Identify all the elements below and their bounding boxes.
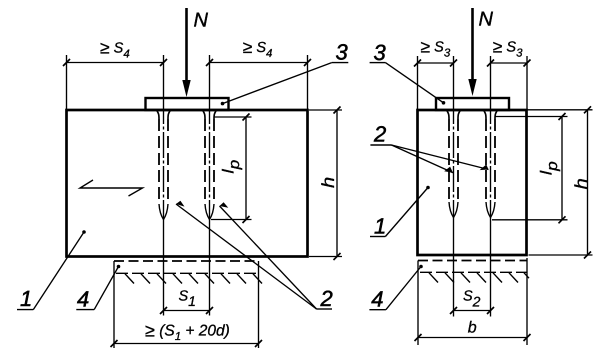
dimension >=S3 right: extension line [526, 56, 528, 109]
svg-text:1: 1 [20, 286, 32, 311]
svg-text:4: 4 [371, 287, 383, 312]
plate 3 (left view) [146, 98, 229, 110]
force arrow N (right view) [471, 8, 474, 81]
dimension >=(S1+20d): oblique ticks [111, 340, 118, 347]
dimension S2: oblique ticks [450, 307, 457, 314]
dimension lp (left view): oblique ticks [243, 114, 250, 121]
dimension lp (right view): dimension line [561, 117, 563, 220]
plate 3 (right view) [436, 98, 509, 110]
support 4 (left view): dashed top line [114, 260, 259, 262]
dimension >=S3 left: dimension line [418, 62, 454, 64]
svg-text:2: 2 [320, 286, 333, 311]
screw axis / extension line (right screw 1) [453, 56, 455, 98]
screw 1 tip (left view) [159, 204, 168, 220]
dimension S1: oblique ticks [160, 307, 167, 314]
svg-text:3: 3 [336, 39, 349, 64]
screw 2 head neck (right view) [484, 111, 497, 119]
screw 1 shank dashed (left view) [158, 119, 160, 204]
support 4 (left view): hatched surface [116, 273, 262, 283]
dimension >=S4 left: dimension line [67, 62, 164, 64]
screw 2 shank dashed (right view) [485, 119, 487, 202]
dimension lp (left view): dimension line [245, 117, 247, 220]
svg-text:3: 3 [374, 40, 387, 65]
member 1 outline (left view) [67, 110, 308, 257]
svg-text:1: 1 [374, 213, 386, 238]
screw axis / extension line (left screw 1) [163, 55, 165, 98]
svg-text:h: h [571, 178, 591, 189]
grain direction symbol (left view) [80, 180, 143, 196]
screw 1 head neck (right view) [447, 111, 460, 119]
dimension b: dimension line [418, 337, 527, 339]
dimension h (left view): dimension line [336, 110, 338, 257]
dimension >=(S1+20d): dimension line [114, 343, 259, 345]
dimension S1: dimension line [164, 310, 210, 312]
screw 2 shank dashed (left view) [204, 119, 206, 204]
dimension >=(S1+20d): right extension line [258, 261, 260, 348]
dimension >=S4 right: extension line [307, 55, 309, 109]
dimension lp (left view): extension lines [214, 116, 252, 118]
support 4 (right view): hatched surface [420, 272, 529, 282]
force arrow N (left view) [185, 8, 188, 82]
screw 1 head neck (left view) [157, 111, 170, 119]
dimension h (right view): extension lines [510, 109, 593, 111]
member 1 outline (right view) [418, 110, 527, 255]
screw 2 head neck (left view) [203, 111, 216, 119]
support 4 (right view): left edge / extension [417, 261, 419, 346]
screw 1 shank dashed (right view) [448, 119, 450, 202]
svg-text:N: N [194, 9, 209, 31]
dimension h (right view): oblique ticks [584, 106, 591, 113]
svg-text:2: 2 [373, 122, 386, 147]
dimension h (left view): oblique ticks [334, 107, 341, 114]
dimension h (right view): dimension line [587, 110, 589, 255]
svg-text:h: h [318, 177, 338, 188]
svg-text:N: N [479, 9, 494, 31]
dimension >=S4 right: oblique ticks [206, 59, 213, 66]
dimension >=S4 left: oblique ticks [63, 59, 70, 66]
dimension b: oblique ticks [415, 334, 422, 341]
dimension lp (right view): oblique ticks [559, 113, 566, 120]
dimension >=S4 right: dimension line [210, 62, 308, 64]
screw axis / extension line (right screw 2) [490, 56, 492, 98]
dimension lp (right view): extension lines [495, 116, 568, 118]
screw axis / extension line (left screw 2) [209, 55, 211, 98]
support 4 (left view): left edge / extension [113, 261, 115, 348]
dimension >=S3 left: oblique ticks [414, 60, 421, 67]
dimension b: right extension line [526, 258, 528, 345]
screw 2 tip (right view) [486, 202, 495, 218]
screw 1 tip (right view) [449, 202, 458, 218]
support 4 (right view): dashed top line [418, 260, 527, 262]
dimension >=S3 right: dimension line [491, 62, 528, 64]
dimension >=S3 right: oblique ticks [487, 60, 494, 67]
screw 2 tip (left view) [205, 204, 214, 220]
dimension h (left view): extension lines [309, 109, 342, 111]
svg-text:b: b [468, 320, 477, 337]
dimension S2: dimension line [454, 310, 491, 312]
dimension >=S3 left: extension line [417, 56, 419, 109]
dimension >=S4 left: extension line [66, 55, 68, 109]
svg-text:4: 4 [77, 286, 89, 311]
